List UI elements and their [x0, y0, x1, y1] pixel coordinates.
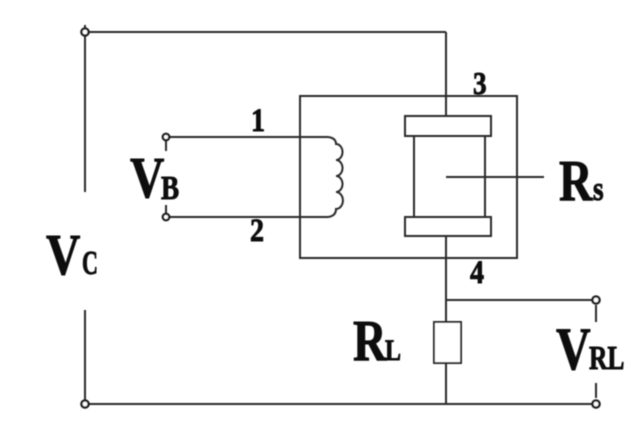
svg-text:L: L	[385, 333, 401, 366]
svg-text:1: 1	[251, 102, 265, 139]
svg-text:V: V	[130, 147, 164, 210]
svg-text:3: 3	[473, 67, 487, 101]
svg-text:2: 2	[250, 212, 264, 249]
svg-text:B: B	[161, 169, 179, 207]
svg-text:V: V	[556, 316, 591, 382]
svg-text:4: 4	[470, 254, 484, 291]
svg-text:C: C	[82, 244, 98, 282]
svg-text:R: R	[353, 309, 387, 373]
svg-text:s: s	[593, 170, 604, 208]
svg-text:V: V	[46, 224, 80, 287]
svg-text:RL: RL	[589, 338, 624, 376]
svg-text:R: R	[559, 149, 593, 213]
